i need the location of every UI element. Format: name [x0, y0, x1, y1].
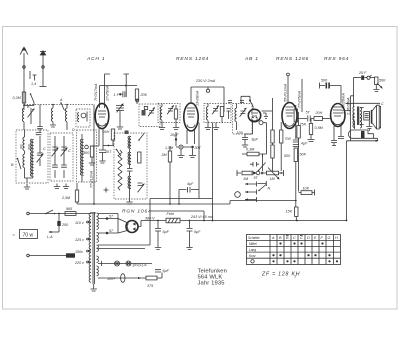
- trimmer box D: [72, 109, 90, 132]
- grid capacitor with arrow: [116, 104, 124, 124]
- ground: [63, 184, 69, 189]
- svg-text:C: C: [43, 147, 46, 151]
- table dots row Mittel: [279, 242, 281, 244]
- pickup terminals: [235, 182, 257, 203]
- dashed link row: [24, 104, 94, 106]
- svg-text:8µF: 8µF: [252, 138, 259, 142]
- svg-text:A: A: [59, 98, 63, 102]
- svg-text:110 v: 110 v: [75, 221, 85, 225]
- resistors 700: [262, 98, 292, 171]
- IF transformer dashed box 3rd: [204, 104, 231, 123]
- loudspeaker: [360, 105, 381, 129]
- svg-text:RGN 1064: RGN 1064: [122, 209, 152, 215]
- mains wire: [29, 213, 91, 215]
- ground: [24, 184, 30, 189]
- resistor 10K: [299, 187, 315, 196]
- svg-text:6µF: 6µF: [163, 269, 170, 273]
- ground stems under U2: [178, 149, 185, 158]
- IF transformer dashed box 2nd: [158, 104, 180, 123]
- lower heater wire: [98, 277, 146, 279]
- svg-text:C: C: [68, 149, 71, 153]
- wires down from U2: [187, 123, 213, 221]
- svg-text:77V/76mA: 77V/76mA: [298, 90, 302, 108]
- svg-text:5T: 5T: [254, 176, 259, 180]
- svg-text:700: 700: [285, 137, 292, 141]
- svg-text:H: H: [335, 236, 338, 240]
- ground under L5: [50, 122, 56, 127]
- svg-text:C: C: [381, 102, 384, 106]
- svg-text:Lang: Lang: [249, 248, 256, 252]
- wave switch above pot: [250, 157, 266, 171]
- svg-text:965: 965: [66, 207, 73, 211]
- tuning capacitor C1: [52, 140, 59, 160]
- svg-text:ACH 1: ACH 1: [86, 56, 105, 62]
- fuse 965: [65, 207, 76, 215]
- coil L3: [23, 154, 25, 168]
- svg-text:1 F: 1 F: [114, 93, 120, 97]
- svg-text:4µF: 4µF: [187, 182, 194, 186]
- svg-text:Kurz: Kurz: [249, 254, 256, 258]
- node junction under antenna: [24, 103, 34, 111]
- coil L5: [51, 108, 53, 122]
- coil L6: [65, 108, 67, 122]
- svg-text:5T: 5T: [306, 111, 311, 115]
- ACH1 cathode resistor 400: [83, 129, 103, 161]
- svg-text:1,4: 1,4: [31, 82, 36, 86]
- svg-text:500: 500: [284, 154, 291, 158]
- output transformer: [353, 78, 362, 130]
- svg-text:0,2M: 0,2M: [13, 96, 22, 100]
- dropper 250: [47, 214, 69, 240]
- capacitor 6uF small: [155, 269, 170, 273]
- svg-text:D: D: [72, 128, 75, 132]
- svg-text:13V/8mA: 13V/8mA: [195, 90, 199, 106]
- svg-text:15K: 15K: [286, 210, 293, 214]
- HT secondary winding: [97, 213, 99, 230]
- wires in box1: [25, 105, 41, 184]
- transformer ground: [93, 284, 95, 286]
- mains terminal: [27, 212, 30, 215]
- oscillator coil winding 3: [128, 176, 131, 189]
- svg-text:26H: 26H: [102, 130, 110, 134]
- power transformer T1 core: [93, 212, 94, 284]
- coil L4 dark: [30, 139, 33, 152]
- svg-text:100: 100: [237, 131, 244, 135]
- padder capacitor with arrow: [37, 153, 44, 162]
- filter capacitor 6uF second: [186, 221, 201, 250]
- AB1 load 100 and 8uF: [237, 122, 259, 142]
- bypass 4uF: [293, 140, 308, 147]
- svg-text:RENS 1284: RENS 1284: [176, 56, 209, 62]
- table dots row D: [272, 260, 274, 262]
- capacitor 30T: [191, 146, 201, 150]
- capacitor above box1: [37, 127, 43, 129]
- svg-text:70 w: 70 w: [23, 233, 34, 239]
- RENS1286 top feed: [284, 73, 302, 112]
- svg-text:z: z: [294, 275, 297, 279]
- svg-text:4µF: 4µF: [301, 142, 308, 146]
- IF transformer dashed box 4th: [233, 104, 253, 135]
- small caps row above dashed boxes: [228, 101, 244, 103]
- tube ACH1 U1: [95, 103, 109, 129]
- HT wires to rectifier: [98, 214, 118, 234]
- volume row resistor 1M: [242, 171, 253, 181]
- capacitor 1F: [114, 74, 130, 97]
- svg-text:Schalter: Schalter: [248, 236, 261, 240]
- svg-text:C: C: [293, 236, 296, 240]
- secondary winding 3: [97, 245, 99, 252]
- svg-text:Mittel: Mittel: [249, 242, 257, 246]
- long vertical wire: [93, 105, 95, 205]
- svg-text:0,3M: 0,3M: [246, 148, 255, 152]
- cathode tap wire: [103, 145, 114, 147]
- field magnet: [348, 130, 377, 141]
- B+ wire with Feld choke: [138, 212, 347, 227]
- antenna switch: [31, 94, 35, 103]
- tube AB1 U3: [248, 109, 263, 124]
- resistor 0,2M: [13, 92, 26, 103]
- oscillator switch top: [139, 134, 144, 141]
- screen cap 10uF: [170, 132, 179, 146]
- trimmer capacitor: [61, 165, 67, 167]
- grid leak 1,5M: [165, 145, 191, 150]
- tuning capacitor C2: [61, 140, 68, 160]
- trimmer capacitor: [52, 165, 58, 167]
- divider resistor mid: [297, 112, 300, 192]
- grounds under 2nd IF box: [162, 123, 176, 125]
- resistor 20K: [135, 89, 147, 104]
- dial lamp 2: [126, 261, 131, 266]
- capacitor in box1: [36, 133, 42, 135]
- resistor 375: [146, 273, 162, 289]
- choke 20H: [314, 111, 330, 120]
- coupling circle: [85, 145, 89, 149]
- svg-text:G: G: [328, 236, 331, 240]
- svg-text:2,5M: 2,5M: [61, 196, 71, 200]
- svg-text:A: A: [271, 236, 275, 240]
- secondary winding 5: [97, 266, 99, 276]
- choke 26H: [102, 129, 115, 145]
- AB1 ground right: [263, 113, 268, 119]
- wire: [24, 118, 31, 130]
- svg-text:150v: 150v: [75, 250, 84, 254]
- node C wire: [346, 102, 385, 106]
- svg-text:‚(5V(1),A: ‚(5V(1),A: [131, 263, 147, 267]
- wires pot row: [237, 170, 284, 176]
- coupling 5T: [253, 171, 263, 180]
- svg-text:N: N: [268, 187, 271, 191]
- tube RES964 U5: [331, 104, 345, 127]
- band filter dashed box 1: [16, 130, 48, 183]
- switch N: [258, 181, 271, 191]
- switch position table: [247, 235, 341, 265]
- oscillator coil winding 1: [128, 136, 131, 149]
- dial lamp 1: [115, 261, 120, 266]
- svg-text:~: ~: [12, 233, 15, 239]
- AB1 top wire: [241, 96, 253, 109]
- grounds under 3rd IF box: [208, 123, 216, 125]
- oscillator dashed box: [114, 133, 147, 199]
- svg-text:7H7/17mA: 7H7/17mA: [94, 83, 98, 101]
- power rating box 70W: [12, 230, 38, 240]
- dial lamp row: [98, 263, 152, 265]
- oscillator coil dashed box: [77, 130, 97, 182]
- electrolytic 100: [107, 274, 125, 283]
- ground: [54, 184, 60, 189]
- svg-text:C: C: [300, 236, 303, 240]
- potentiometer 1M: [267, 168, 280, 182]
- oscillator grid resistor: [138, 152, 141, 163]
- secondary winding 4: [97, 256, 99, 263]
- svg-text:500: 500: [321, 79, 328, 83]
- svg-text:6µF: 6µF: [163, 230, 170, 234]
- wires in box2: [55, 136, 64, 178]
- rectifier tube RGN1064 U6: [118, 219, 138, 234]
- svg-text:77V/12mA: 77V/12mA: [90, 170, 94, 188]
- divider resistor 75K upper: [294, 105, 307, 139]
- oscillator trimmer arrow: [138, 183, 145, 192]
- terminal block: [125, 131, 129, 135]
- switch A: [59, 98, 65, 111]
- speaker cap: [366, 121, 372, 132]
- Telefunken title block: [198, 269, 228, 287]
- svg-text:375: 375: [147, 284, 154, 288]
- resistor 2,5M: [61, 183, 79, 204]
- AB1 diode output wire: [263, 123, 267, 157]
- coil L2: [23, 137, 25, 151]
- RES964 anode wiring: [320, 79, 351, 117]
- svg-text:243 V/ 60 mA: 243 V/ 60 mA: [190, 215, 214, 219]
- input coil L1: [22, 108, 24, 122]
- antenna: [20, 47, 28, 106]
- antenna coupling capacitor 1,4: [30, 71, 37, 86]
- capacitor 4uF: [179, 182, 199, 204]
- svg-text:25 F: 25 F: [358, 71, 367, 75]
- svg-text:L,A: L,A: [47, 235, 53, 239]
- svg-text:30T: 30T: [195, 146, 202, 150]
- resistor 500: [271, 145, 291, 171]
- svg-text:50K: 50K: [379, 79, 386, 83]
- U5 cathode parts: [331, 126, 344, 146]
- ground in oscillator: [129, 192, 131, 199]
- potentiometer 50K: [373, 77, 386, 92]
- resistor 15K: [286, 207, 299, 221]
- resistor 0,3M: [242, 148, 267, 158]
- svg-text:230 V/ 2mA: 230 V/ 2mA: [195, 79, 216, 83]
- svg-text:55V/0,2mA: 55V/0,2mA: [284, 83, 288, 102]
- IF transformer dashed box 1st: [136, 99, 160, 127]
- svg-text:2M: 2M: [161, 153, 168, 157]
- svg-text:2,2E/2mA: 2,2E/2mA: [346, 97, 351, 116]
- oscillator series caps: [127, 149, 133, 192]
- mains switch: [46, 210, 53, 214]
- cap 57: [106, 217, 109, 220]
- output coupling 5T: [297, 111, 315, 122]
- ground: [117, 124, 123, 129]
- primary winding: [89, 213, 91, 282]
- primary taps: [74, 212, 96, 265]
- svg-text:220 v: 220 v: [74, 261, 85, 265]
- svg-text:50K: 50K: [300, 153, 307, 157]
- switch B: [11, 158, 21, 169]
- svg-text:300: 300: [19, 144, 23, 149]
- svg-text:D: D: [307, 236, 310, 240]
- resistor 50K: [294, 148, 307, 207]
- svg-text:RENS 1286: RENS 1286: [276, 56, 309, 62]
- long bias bus: [77, 201, 296, 205]
- secondary winding 2: [97, 233, 99, 243]
- oscillator coil winding 2: [128, 152, 131, 165]
- oscillator switch left: [117, 150, 122, 157]
- svg-text:20H: 20H: [315, 111, 323, 115]
- tube RENS1284 U2: [184, 103, 198, 131]
- wave trap trimmer B1: [27, 105, 34, 118]
- svg-text:20K: 20K: [140, 93, 148, 97]
- long vertical right: [346, 96, 354, 221]
- svg-text:125 v: 125 v: [75, 238, 85, 242]
- second mains terminal: [27, 253, 75, 257]
- svg-text:250: 250: [61, 223, 69, 227]
- filter capacitor 6uF: [155, 221, 170, 250]
- resistor 2M: [161, 146, 172, 204]
- wires: [81, 134, 83, 182]
- svg-text:10µF: 10µF: [170, 133, 179, 137]
- oscillator zigzag winding: [118, 150, 122, 190]
- padder cross: [104, 188, 109, 193]
- band filter dashed box 2: [50, 133, 73, 181]
- field return wire: [347, 140, 379, 142]
- top right capacitor 25F: [354, 71, 375, 80]
- cap 57 second: [106, 232, 109, 235]
- svg-text:10K: 10K: [303, 187, 310, 191]
- svg-text:400: 400: [83, 151, 90, 155]
- grid resistor 0,8M: [308, 119, 324, 142]
- svg-text:Jahr 1935: Jahr 1935: [198, 281, 225, 287]
- svg-text:100+: 100+: [107, 277, 116, 281]
- ACH1 top anode wiring: [100, 74, 138, 103]
- heater wires 4V: [98, 211, 150, 249]
- earth antenna: [40, 50, 47, 87]
- svg-text:Feld: Feld: [167, 212, 175, 216]
- svg-text:RES 964: RES 964: [324, 56, 349, 62]
- bypass capacitor 30T: [99, 150, 112, 158]
- line y198: [150, 199, 213, 221]
- RENS1284 anode loop 230V 2mA: [191, 79, 224, 112]
- svg-text:6µF: 6µF: [194, 230, 201, 234]
- table dots row Kurz: [272, 254, 274, 256]
- svg-text:1,5M: 1,5M: [165, 146, 174, 150]
- tube RENS1286 U4: [282, 103, 297, 129]
- svg-text:17V/5mA: 17V/5mA: [105, 85, 109, 101]
- svg-text:0,8M: 0,8M: [315, 126, 324, 130]
- svg-text:AB 1: AB 1: [244, 56, 259, 62]
- svg-text:30T: 30T: [105, 150, 112, 154]
- oscillator coil block dark: [80, 139, 83, 152]
- svg-text:3000: 3000: [27, 143, 31, 150]
- wires: [53, 105, 67, 131]
